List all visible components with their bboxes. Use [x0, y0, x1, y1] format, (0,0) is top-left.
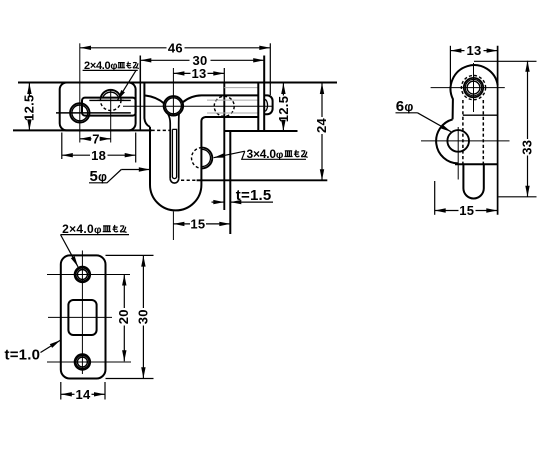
screw hole B2 (bottom) — [75, 354, 91, 370]
dimension 14 — [61, 393, 75, 395]
inner step line — [463, 114, 498, 116]
svg-text:7: 7 — [92, 131, 100, 146]
wire leader t=1.0 — [41, 340, 61, 352]
label t=1.5 — [212, 201, 225, 203]
arm right shoulder curve — [183, 95, 259, 102]
svg-text:2×4.0φ: 2×4.0φ — [62, 222, 102, 236]
node S1 vertical centerline — [79, 43, 81, 142]
block bottom edge — [455, 163, 498, 165]
dimension 30 (bottom view) — [142, 256, 144, 308]
screw hole S2 visible top arc — [101, 90, 121, 98]
dimension 12.5 right — [282, 83, 284, 96]
arm neck right — [178, 114, 180, 179]
strike plate body — [61, 255, 106, 378]
arm rod tab — [463, 164, 483, 198]
wire leader to B1 — [61, 235, 79, 267]
upper lobe arc — [451, 65, 498, 119]
bolt slide bar — [82, 98, 136, 116]
dimension 15 (right view) — [435, 210, 459, 212]
screw hole S2 (hidden, keeper right) dashed — [100, 90, 121, 111]
base plate left edge — [139, 56, 141, 131]
wire leader to S4 — [242, 151, 306, 159]
arm left edge / bend line — [144, 83, 150, 127]
svg-text:t=1.0: t=1.0 — [5, 347, 41, 364]
node window horizontal centerline — [48, 316, 112, 318]
dimension 46 — [80, 47, 167, 49]
svg-text:20: 20 — [116, 309, 131, 324]
end bump tab — [264, 95, 272, 114]
leg back edge — [229, 130, 231, 234]
screw hole R1 — [461, 76, 485, 100]
wire top edge long line — [18, 82, 337, 84]
svg-text:46: 46 — [168, 40, 183, 55]
leg fold faint line — [224, 87, 258, 89]
svg-text:30: 30 — [135, 309, 150, 324]
hole 6 phi — [447, 130, 469, 152]
svg-text:33: 33 — [519, 140, 534, 155]
node S2 vertical centerline — [110, 89, 112, 143]
node R1 centerlines — [431, 87, 505, 89]
wire bottom edge hidden dashes — [152, 129, 171, 131]
screw hole S4 visible arc — [202, 148, 212, 169]
arm tip outer arc — [170, 179, 179, 183]
flange bottom hidden dashes — [181, 179, 197, 181]
svg-text:12.5: 12.5 — [21, 94, 36, 121]
arm left shoulder curve — [145, 95, 165, 103]
bolt inner top line — [89, 99, 131, 101]
svg-text:18: 18 — [91, 148, 106, 163]
bolt inner bottom line / hole centerline — [56, 112, 131, 114]
arm inner slot — [172, 129, 176, 178]
screw hole B1 (top) — [75, 267, 91, 283]
lower lobe arc — [436, 119, 458, 163]
screw hole S1 (solid, keeper left) — [70, 103, 89, 122]
svg-text:t=1.5: t=1.5 — [236, 187, 272, 204]
node 6phi centerlines — [421, 140, 510, 142]
dimension 18 — [62, 154, 90, 156]
knob circle — [164, 96, 183, 115]
dimension 20 — [123, 275, 125, 309]
svg-text:12.5: 12.5 — [276, 96, 291, 123]
arm rod hidden dashes — [462, 100, 464, 164]
dimension 13 — [173, 72, 190, 74]
wire leader to S2 — [117, 70, 136, 100]
dimension 13 (right view) — [450, 50, 464, 52]
latch arm U body — [150, 117, 258, 210]
plate right bend line — [257, 83, 259, 132]
dimension 24 — [321, 83, 323, 117]
wire bottom edge line left — [13, 129, 152, 131]
svg-text:13: 13 — [191, 66, 206, 81]
svg-text:14: 14 — [75, 387, 91, 402]
svg-text:15: 15 — [190, 217, 205, 232]
latch window — [68, 300, 96, 335]
keeper plate body — [60, 83, 136, 131]
screw hole S4 half dashed — [192, 148, 202, 169]
node B2 horizontal centerline — [47, 361, 131, 363]
flange bottom edge — [197, 179, 328, 181]
node plate vertical centerline — [81, 251, 83, 375]
screw hole S3 (hidden on leg) dashed — [214, 96, 234, 116]
node main horizontal centerline — [123, 105, 274, 107]
dimension 30 — [140, 59, 189, 61]
svg-text:15: 15 — [459, 203, 474, 218]
block right edge — [497, 46, 499, 215]
node arm vertical centerline — [172, 68, 174, 240]
emboss faint inner lines — [207, 100, 258, 113]
node S2 horizontal centerline — [98, 99, 125, 101]
plate right edge — [263, 56, 265, 132]
arm neck left — [168, 114, 170, 179]
svg-text:24: 24 — [314, 118, 329, 134]
node B1 horizontal centerline — [47, 274, 130, 276]
dimension 15 (main) — [173, 223, 190, 225]
dimension 7 — [80, 138, 92, 140]
svg-text:13: 13 — [466, 43, 481, 58]
wire bottom edge line right — [225, 130, 298, 132]
dimension 12.5 left — [28, 83, 30, 96]
dimension 33 — [527, 61, 529, 139]
leg front edge — [223, 68, 225, 83]
